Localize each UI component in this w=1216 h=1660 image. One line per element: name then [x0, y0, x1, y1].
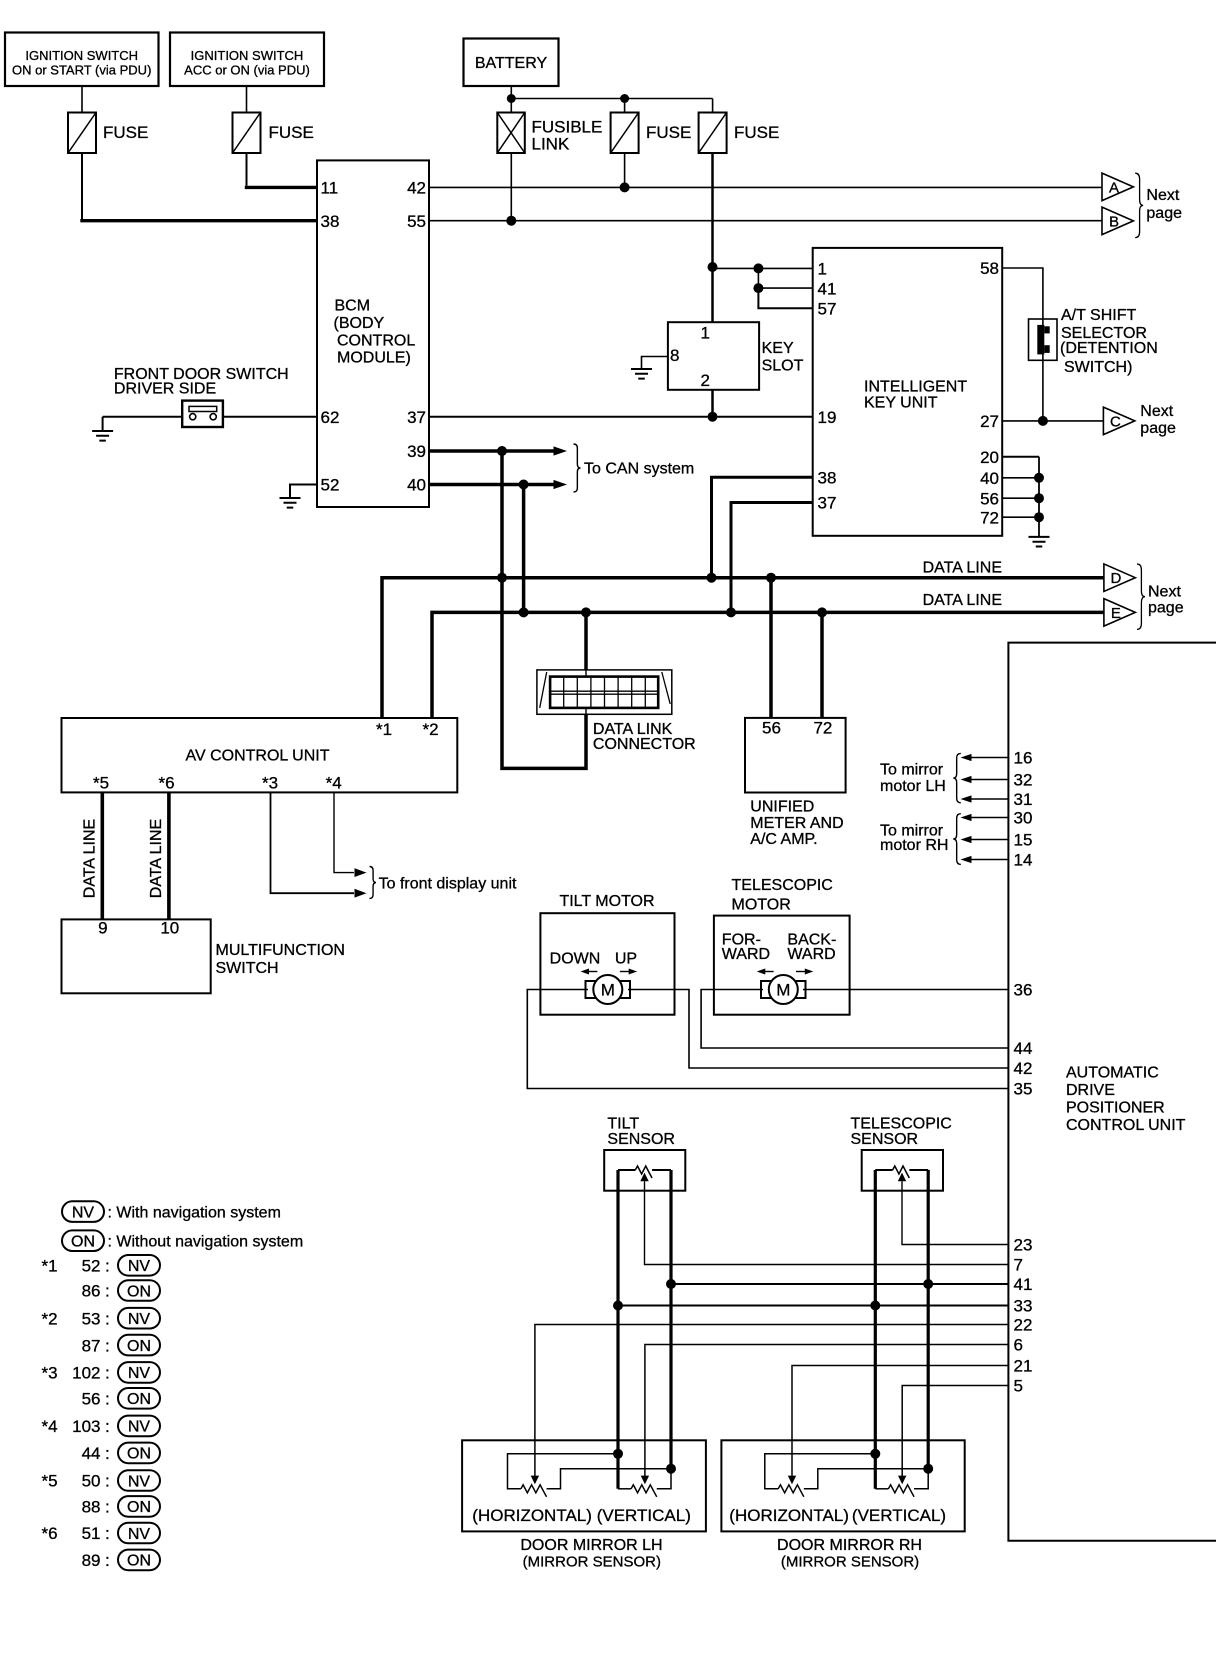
svg-text:Next: Next: [1146, 187, 1179, 204]
svg-text:NV: NV: [128, 1258, 151, 1275]
svg-text:DOOR MIRROR RH: DOOR MIRROR RH: [777, 1537, 922, 1554]
ignition switch ACC/ON box: [170, 33, 324, 87]
svg-text:CONNECTOR: CONNECTOR: [593, 736, 696, 753]
wire CAN39 junction to DLC loop: [502, 451, 586, 768]
svg-text:(HORIZONTAL): (HORIZONTAL): [472, 1506, 592, 1525]
svg-text::: :: [105, 1257, 110, 1276]
svg-text:D: D: [1110, 570, 1121, 587]
svg-text:SLOT: SLOT: [762, 357, 804, 374]
svg-text:(MIRROR SENSOR): (MIRROR SENSOR): [781, 1554, 919, 1571]
svg-text:ON: ON: [71, 1233, 95, 1250]
legend NV symbol: [62, 1201, 104, 1222]
tilt sensor wiper to ADP 7: [640, 1173, 648, 1182]
AV control unit box: [62, 718, 458, 792]
svg-text:METER AND: METER AND: [750, 815, 843, 832]
svg-text:8: 8: [670, 346, 679, 365]
tilt sensor left terminal: [618, 1169, 635, 1171]
svg-text:ON: ON: [127, 1446, 151, 1463]
svg-text:NV: NV: [128, 1473, 151, 1490]
tilt motor arrows: [588, 971, 597, 973]
svg-text:(DETENTION: (DETENTION: [1060, 340, 1158, 357]
wire IKU 20: [1002, 456, 1039, 458]
svg-text:ACC or ON (via PDU): ACC or ON (via PDU): [184, 63, 310, 78]
svg-text:(VERTICAL): (VERTICAL): [597, 1506, 691, 1525]
LH horizontal pot right wire: [547, 1469, 671, 1489]
svg-text:DOOR MIRROR LH: DOOR MIRROR LH: [520, 1537, 662, 1554]
wire BCM 40 CAN: [429, 483, 554, 486]
RH vertical pot right wire: [914, 1469, 928, 1489]
LH vertical pot right wire: [657, 1469, 671, 1489]
svg-text:page: page: [1146, 205, 1182, 222]
svg-text:FUSE: FUSE: [734, 123, 779, 142]
fuse F2: [233, 113, 261, 154]
svg-text:TELESCOPIC: TELESCOPIC: [732, 877, 833, 894]
svg-text:89: 89: [82, 1551, 101, 1570]
svg-text:NV: NV: [72, 1204, 95, 1221]
svg-text:56: 56: [762, 719, 781, 738]
svg-text:27: 27: [980, 412, 999, 431]
wire detention switch to 27 line: [1042, 360, 1044, 421]
svg-text:KEY: KEY: [762, 340, 794, 357]
ground front door switch: [102, 417, 104, 431]
svg-text:38: 38: [321, 212, 340, 231]
wire key slot 8 to ground: [642, 357, 668, 370]
wire telescopic motor left to ADP 44: [701, 990, 1008, 1049]
svg-text::: :: [105, 1364, 110, 1383]
svg-text:(MIRROR SENSOR): (MIRROR SENSOR): [523, 1554, 661, 1571]
wire BCM 39 CAN: [429, 449, 554, 452]
svg-text::: :: [105, 1417, 110, 1436]
wire A line BCM42 to next page A: [429, 186, 1102, 188]
svg-text:102: 102: [72, 1364, 100, 1383]
svg-text:NV: NV: [128, 1526, 151, 1543]
svg-text:M: M: [776, 981, 790, 1000]
svg-text:BATTERY: BATTERY: [475, 55, 548, 72]
svg-text:motor LH: motor LH: [880, 778, 946, 795]
svg-text:2: 2: [701, 371, 710, 390]
svg-text::: :: [105, 1551, 110, 1570]
door mirror LH box: [462, 1440, 706, 1531]
wire ADP pin 33 line: [618, 1305, 1008, 1307]
door mirror RH box: [721, 1440, 964, 1531]
svg-text:To front display unit: To front display unit: [379, 875, 517, 892]
svg-text:BCM: BCM: [335, 298, 371, 315]
svg-text:40: 40: [980, 469, 999, 488]
svg-text:POSITIONER: POSITIONER: [1066, 1100, 1165, 1117]
svg-text:M: M: [601, 981, 615, 1000]
svg-text:56: 56: [980, 489, 999, 508]
svg-text:SWITCH: SWITCH: [216, 960, 279, 977]
svg-text:A/C AMP.: A/C AMP.: [750, 831, 817, 848]
tilt sensor potentiometer: [635, 1166, 652, 1178]
svg-text:NV: NV: [128, 1365, 151, 1382]
svg-text:Next: Next: [1148, 583, 1181, 600]
svg-text:38: 38: [818, 468, 837, 487]
wire ADP pin 21 to RH horizontal wiper: [792, 1366, 1008, 1477]
svg-text:42: 42: [407, 179, 426, 198]
svg-text:SENSOR: SENSOR: [607, 1131, 675, 1148]
svg-text:CONTROL UNIT: CONTROL UNIT: [1066, 1117, 1186, 1134]
svg-text:103: 103: [72, 1417, 100, 1436]
svg-text::: :: [105, 1336, 110, 1355]
svg-text:44: 44: [1014, 1039, 1033, 1058]
battery box: [464, 39, 559, 87]
svg-text:C: C: [1110, 413, 1121, 430]
svg-text:15: 15: [1014, 831, 1033, 850]
svg-text:88: 88: [82, 1498, 101, 1517]
multifunction switch box: [62, 919, 211, 993]
ignition switch ON/START box: [5, 33, 159, 87]
svg-text:DRIVE: DRIVE: [1066, 1082, 1115, 1099]
wire ADP pin 6 to LH vertical wiper: [645, 1345, 1009, 1477]
svg-text:37: 37: [818, 494, 837, 513]
wire E line to DLC top: [584, 612, 588, 670]
LH vertical pot left wire: [618, 1488, 631, 1490]
wire ADP pin 5 to RH vertical wiper: [902, 1386, 1008, 1477]
LH vertical potentiometer: [631, 1485, 657, 1497]
RH horizontal pot left wire: [765, 1454, 876, 1489]
svg-text:A: A: [1109, 179, 1119, 196]
wire bus to fusible link: [510, 99, 512, 113]
svg-text:AUTOMATIC: AUTOMATIC: [1066, 1065, 1159, 1082]
svg-text:page: page: [1140, 420, 1176, 437]
svg-text:41: 41: [1014, 1275, 1033, 1294]
wire tilt sensor right vertical: [669, 1170, 672, 1469]
wire AV *5 to MFS 9: [101, 792, 105, 919]
wire to IKU pin 1: [713, 267, 813, 269]
telescopic sensor potentiometer: [893, 1166, 910, 1178]
svg-text:SWITCH): SWITCH): [1064, 359, 1132, 376]
wire battery to bus: [510, 86, 512, 99]
wire ADP pin 30 to mirror motor: [971, 817, 1008, 819]
RH vertical potentiometer: [888, 1485, 914, 1497]
wire IKU 72: [1002, 516, 1039, 518]
svg-text:52: 52: [321, 476, 340, 495]
svg-text:CONTROL: CONTROL: [337, 332, 415, 349]
svg-text:DATA LINE: DATA LINE: [148, 819, 165, 898]
LH horizontal potentiometer: [521, 1485, 547, 1497]
svg-text:19: 19: [818, 408, 837, 427]
fuse F3: [611, 113, 639, 154]
wire ADP pin 15 to mirror motor: [971, 839, 1008, 841]
svg-text:DRIVER SIDE: DRIVER SIDE: [114, 381, 216, 398]
wire AV *6 to MFS 10: [167, 792, 171, 919]
svg-text:SENSOR: SENSOR: [851, 1131, 919, 1148]
data link connector housing: [537, 670, 672, 714]
wire to IKU pin 41: [758, 268, 812, 288]
svg-text:37: 37: [407, 408, 426, 427]
svg-text:ON: ON: [127, 1553, 151, 1570]
svg-text::: :: [105, 1444, 110, 1463]
brace mirror motor RH: [953, 814, 961, 865]
svg-text:33: 33: [1014, 1297, 1033, 1316]
svg-text:IGNITION SWITCH: IGNITION SWITCH: [25, 48, 138, 63]
battery bus wire: [511, 98, 712, 100]
svg-text:*6: *6: [42, 1524, 58, 1543]
wire bus corner to fuse F4: [712, 99, 714, 113]
svg-text:DATA LINE: DATA LINE: [923, 592, 1002, 609]
telescopic motor arrows: [765, 971, 774, 973]
svg-text:50: 50: [82, 1472, 101, 1491]
ground IKU: [1029, 537, 1050, 547]
svg-text:57: 57: [818, 300, 837, 319]
wire IKU 40: [1002, 477, 1039, 479]
svg-text:20: 20: [980, 448, 999, 467]
svg-text:MULTIFUNCTION: MULTIFUNCTION: [216, 942, 345, 959]
wire D line to unified meter 56: [769, 578, 773, 718]
svg-text:ON: ON: [127, 1499, 151, 1516]
wire telescopic sensor right vertical: [927, 1170, 930, 1469]
junction battery bus: [507, 94, 516, 103]
svg-text:*4: *4: [42, 1417, 58, 1436]
svg-text:To CAN system: To CAN system: [584, 461, 694, 478]
svg-text:31: 31: [1014, 790, 1033, 809]
svg-text:40: 40: [407, 476, 426, 495]
svg-text:58: 58: [980, 259, 999, 278]
svg-text:35: 35: [1014, 1080, 1033, 1099]
wire E line to unified meter 72: [820, 612, 824, 718]
svg-text:: With navigation system: : With navigation system: [108, 1204, 281, 1221]
svg-text:21: 21: [1014, 1357, 1033, 1376]
svg-text:5: 5: [1014, 1377, 1023, 1396]
svg-text:WARD: WARD: [787, 946, 835, 963]
svg-text:NV: NV: [128, 1419, 151, 1436]
wire fuse F3 to A line: [624, 153, 626, 187]
next page D arrow: [1104, 564, 1135, 592]
svg-text:1: 1: [818, 260, 827, 279]
telescopic sensor right terminal: [909, 1169, 928, 1171]
RH horizontal potentiometer: [778, 1485, 804, 1497]
svg-text::: :: [105, 1524, 110, 1543]
next page E arrow: [1104, 599, 1135, 627]
svg-text:22: 22: [1014, 1316, 1033, 1335]
telescopic sensor wiper to ADP 23: [898, 1173, 906, 1182]
svg-text:*5: *5: [93, 774, 109, 793]
brace next page A/B: [1135, 173, 1143, 237]
svg-text:16: 16: [1014, 749, 1033, 768]
svg-text:ON: ON: [127, 1338, 151, 1355]
svg-text:53: 53: [82, 1309, 101, 1328]
next page A arrow: [1102, 173, 1133, 201]
wire IKU 27 to next page C: [1002, 420, 1103, 422]
svg-text:To mirror: To mirror: [880, 762, 944, 779]
svg-text:55: 55: [407, 212, 426, 231]
key slot box: [668, 322, 759, 390]
svg-text:86: 86: [82, 1282, 101, 1301]
svg-text::: :: [105, 1498, 110, 1517]
svg-text:DATA LINE: DATA LINE: [923, 559, 1002, 576]
svg-text:23: 23: [1014, 1236, 1033, 1255]
svg-text:7: 7: [1014, 1256, 1023, 1275]
wire IKU 56: [1002, 497, 1039, 499]
svg-text::: :: [105, 1309, 110, 1328]
svg-text:6: 6: [1014, 1336, 1023, 1355]
tilt sensor right terminal: [652, 1169, 671, 1171]
svg-text:A/T SHIFT: A/T SHIFT: [1061, 307, 1136, 324]
svg-text:IGNITION SWITCH: IGNITION SWITCH: [191, 48, 304, 63]
svg-text:NV: NV: [128, 1311, 151, 1328]
telescopic sensor left terminal: [875, 1169, 892, 1171]
front door switch: [182, 401, 223, 427]
junction D line dots: [497, 573, 507, 583]
svg-text:11: 11: [321, 179, 339, 198]
svg-text:DATA LINE: DATA LINE: [82, 819, 99, 898]
tilt motor M1: [586, 981, 597, 998]
fuse F4: [699, 113, 727, 154]
next page C arrow: [1103, 407, 1134, 435]
svg-text:*2: *2: [422, 720, 438, 739]
wire ADP pin 41 line: [671, 1283, 1008, 1285]
wire BCM 52 to ground: [290, 485, 317, 499]
RH vertical pot left wire: [875, 1488, 888, 1490]
svg-text:14: 14: [1014, 851, 1033, 870]
wire ADP pin 14 to mirror motor: [971, 859, 1008, 861]
data link connector grid: [550, 677, 658, 708]
wire BCM 37 to IKU 19: [429, 416, 813, 418]
svg-text:41: 41: [818, 279, 837, 298]
svg-text:62: 62: [321, 408, 340, 427]
fusible link FL: [497, 113, 525, 154]
svg-text:MODULE): MODULE): [337, 350, 411, 367]
wire key slot 2 to 19 line: [711, 390, 714, 417]
ground key slot: [631, 369, 652, 379]
svg-text:UP: UP: [615, 951, 637, 968]
svg-text:WARD: WARD: [722, 946, 770, 963]
wire B line BCM55 to next page B: [429, 220, 1102, 222]
next page B arrow: [1102, 207, 1133, 235]
svg-text:Next: Next: [1140, 403, 1173, 420]
wire D data line: [382, 578, 1104, 718]
svg-text:42: 42: [1014, 1059, 1033, 1078]
wire fuse F4 to key slot: [711, 153, 714, 322]
brace to front display: [370, 867, 377, 899]
svg-text:ON: ON: [127, 1391, 151, 1408]
wire CAN40 junction to E line: [522, 485, 526, 613]
svg-text:FUSE: FUSE: [103, 123, 148, 142]
wire AV *4 to front display: [334, 792, 354, 872]
svg-text:44: 44: [82, 1444, 101, 1463]
wire ignition2 to fuse F2: [246, 86, 248, 113]
svg-text:(VERTICAL): (VERTICAL): [852, 1506, 946, 1525]
svg-text:FUSE: FUSE: [269, 123, 314, 142]
BCM box: [317, 160, 429, 507]
svg-text:E: E: [1111, 605, 1121, 622]
svg-text:39: 39: [407, 442, 426, 461]
wire IKU 37 to E line: [731, 503, 813, 611]
junction E line dots: [519, 607, 529, 617]
automatic drive positioner control unit box: [1008, 643, 1216, 1541]
svg-text:motor RH: motor RH: [880, 837, 948, 854]
svg-text:page: page: [1148, 599, 1184, 616]
wire telescopic sensor left vertical: [874, 1170, 877, 1489]
svg-text:*6: *6: [158, 774, 174, 793]
svg-text:72: 72: [980, 508, 999, 527]
wire IKU 58 to detention switch: [1002, 268, 1043, 319]
svg-text:LINK: LINK: [532, 134, 570, 153]
brace To CAN: [574, 444, 581, 492]
svg-text:51: 51: [82, 1524, 101, 1543]
wire ADP pin 32 to mirror motor: [971, 779, 1008, 781]
wire front door switch to BCM pin 62: [223, 416, 317, 418]
wire tilt motor right to ADP 42: [628, 990, 1008, 1069]
svg-text:56: 56: [82, 1390, 101, 1409]
svg-text:B: B: [1109, 213, 1119, 230]
wire bus to fuse F3: [624, 99, 626, 113]
LH horizontal pot left wire: [508, 1454, 619, 1489]
wire ground to front door switch: [103, 416, 183, 418]
svg-text:10: 10: [160, 918, 179, 937]
svg-text:36: 36: [1014, 981, 1033, 1000]
svg-text:9: 9: [98, 918, 107, 937]
brace next page D/E: [1137, 564, 1145, 629]
svg-text:*2: *2: [42, 1309, 58, 1328]
tilt sensor box: [604, 1150, 685, 1191]
svg-text:*1: *1: [376, 720, 392, 739]
svg-text:ON: ON: [127, 1283, 151, 1300]
A/T shift selector detention switch: [1029, 319, 1058, 360]
wire fuse F2 to BCM pin 11: [246, 153, 248, 186]
wire fusible link to B line: [510, 153, 512, 221]
wire telescopic motor right to ADP 36: [803, 989, 1008, 991]
wire IKU pin 57: [758, 288, 812, 308]
svg-text:AV CONTROL UNIT: AV CONTROL UNIT: [185, 748, 329, 765]
svg-text:32: 32: [1014, 771, 1033, 790]
wire tilt motor left to ADP 35: [527, 990, 1008, 1089]
svg-text:MOTOR: MOTOR: [732, 896, 791, 913]
svg-text:87: 87: [82, 1336, 101, 1355]
wire ADP pin 31 to mirror motor: [971, 798, 1008, 800]
intelligent key unit box: [813, 248, 1003, 536]
telescopic motor box: [714, 916, 850, 1015]
wire ADP pin 22 to LH horizontal wiper: [535, 1325, 1009, 1477]
svg-text::: :: [105, 1472, 110, 1491]
svg-text:FUSE: FUSE: [646, 123, 691, 142]
svg-text:ON or START (via PDU): ON or START (via PDU): [12, 63, 151, 78]
wire ignition1 to fuse F1: [81, 86, 83, 113]
wire E data line: [432, 612, 1104, 718]
svg-text::: :: [105, 1390, 110, 1409]
wire ADP pin 16 to mirror motor: [971, 757, 1008, 759]
svg-text:72: 72: [813, 719, 832, 738]
brace mirror motor LH: [953, 753, 961, 802]
unified meter and A/C amp box: [745, 718, 846, 793]
svg-text::: :: [105, 1282, 110, 1301]
svg-text:KEY UNIT: KEY UNIT: [864, 394, 938, 411]
svg-text:TILT MOTOR: TILT MOTOR: [559, 893, 654, 910]
svg-text:UNIFIED: UNIFIED: [750, 799, 814, 816]
wire AV *3 to front display: [271, 792, 355, 893]
tilt motor box: [540, 913, 674, 1015]
svg-text:*3: *3: [42, 1364, 58, 1383]
telescopic sensor box: [862, 1150, 943, 1191]
fuse F1: [68, 113, 96, 154]
svg-text:DOWN: DOWN: [550, 951, 601, 968]
svg-text:(HORIZONTAL): (HORIZONTAL): [729, 1506, 849, 1525]
svg-text:1: 1: [701, 324, 710, 343]
ground BCM 52: [280, 498, 301, 508]
svg-text:52: 52: [82, 1257, 101, 1276]
svg-text:*3: *3: [262, 774, 278, 793]
svg-text:: Without navigation system: : Without navigation system: [108, 1233, 304, 1250]
svg-text:*1: *1: [42, 1257, 58, 1276]
svg-text:(BODY: (BODY: [334, 315, 385, 332]
svg-text:*4: *4: [326, 774, 342, 793]
wire IKU 38 to D line: [712, 477, 813, 576]
legend ON symbol: [62, 1230, 104, 1251]
svg-text:*5: *5: [42, 1472, 58, 1491]
svg-text:30: 30: [1014, 809, 1033, 828]
svg-text:INTELLIGENT: INTELLIGENT: [864, 378, 967, 395]
